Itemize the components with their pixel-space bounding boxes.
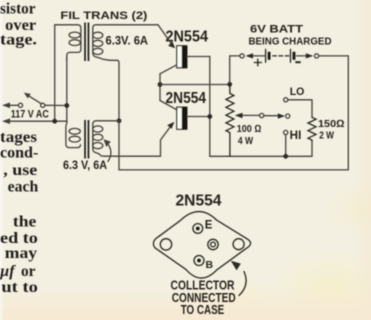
svg-text:6.3V. 6A: 6.3V. 6A (106, 34, 149, 48)
svg-text:2N554: 2N554 (176, 193, 222, 210)
svg-text:µf: µf (0, 263, 16, 280)
svg-text:or: or (21, 263, 36, 280)
resistor 150 ohm 2W zigzag (308, 117, 316, 141)
battery cell 2 (290, 49, 292, 62)
transformer T1 core (84, 23, 86, 62)
svg-text:BEING CHARGED: BEING CHARGED (249, 36, 332, 48)
svg-text:LO: LO (290, 86, 305, 98)
potentiometer 100 ohm 4W zigzag (226, 84, 234, 156)
transistor Q1 body (177, 46, 187, 68)
transistor Q1 emitter wire from T1 secondary (158, 25, 171, 43)
battery cell 1 (265, 49, 267, 62)
battery terminal circle right (315, 54, 319, 58)
svg-text:TO CASE: TO CASE (181, 303, 225, 317)
svg-text:FIL TRANS (2): FIL TRANS (2) (60, 10, 147, 22)
wire base bus vertical (159, 74, 161, 101)
wire T1 secondary bottom down to center node (117, 60, 119, 121)
switch pole circle (286, 114, 290, 118)
junction dot collectors (207, 114, 212, 119)
TO-3 collector pin (208, 239, 218, 249)
junction dot A (52, 119, 57, 124)
svg-text:2 W: 2 W (319, 129, 334, 141)
svg-text:the: the (13, 214, 37, 231)
svg-text:100 Ω: 100 Ω (237, 123, 262, 135)
svg-text:117 V AC: 117 V AC (11, 109, 49, 121)
potentiometer wiper arrow (242, 114, 260, 116)
transistor Q2 base lead (160, 101, 177, 110)
svg-text:sistor: sistor (0, 1, 36, 18)
transformer T1 secondary winding (93, 25, 158, 61)
wire Q2 collector (187, 116, 210, 118)
switch wiper contact circle (260, 113, 264, 117)
svg-text:6V BATT: 6V BATT (250, 24, 303, 36)
TO-3 mounting hole left (160, 239, 171, 250)
wire 117VAC top line with left arrow (5, 104, 18, 106)
svg-text:E: E (205, 219, 213, 231)
wire collector bus bottom (210, 141, 312, 156)
transformer T2 core (84, 120, 86, 159)
junction dot center node (117, 118, 122, 123)
wire main bottom bus (119, 121, 348, 170)
wire LO to 150 ohm (288, 100, 312, 118)
wire battery plus drop (230, 56, 240, 84)
svg-text:150Ω: 150Ω (318, 118, 345, 130)
TO-3 base pin (194, 256, 204, 266)
wire battery right to border (319, 55, 349, 57)
wire HI down to bus (285, 135, 287, 157)
label + (battery plus) (254, 59, 261, 66)
TO-3 emitter pin (193, 224, 203, 234)
battery dashed link (273, 55, 289, 57)
junction dot HI-bus (283, 154, 288, 159)
switch LO contact circle (284, 98, 288, 102)
battery terminal circle left (240, 54, 244, 58)
transistor Q2 body (177, 107, 187, 129)
switch pole arrow (264, 115, 280, 117)
svg-text:tage.: tage. (0, 32, 37, 49)
TO-3 mounting hole right (233, 239, 244, 250)
arrow from 6.3V,6A label to T2 secondary (108, 145, 111, 162)
battery left arrow (249, 55, 265, 57)
switch HI contact circle (284, 130, 288, 134)
svg-text:2N554: 2N554 (166, 90, 207, 107)
transistor Q2 emitter wire from T2 secondary (105, 128, 170, 156)
switch contact circle left (18, 103, 22, 107)
svg-text:HI: HI (290, 130, 302, 142)
battery right arrow (297, 55, 309, 57)
wire Q1 collector (187, 57, 210, 157)
svg-text:cond-: cond- (0, 144, 38, 161)
transistor Q1 base lead (160, 65, 177, 74)
wire vertical B (T1 primary bottom to T2 primary top) (66, 57, 81, 148)
transformer T1 primary winding (55, 25, 81, 60)
svg-text:may: may (5, 245, 38, 262)
svg-text:6.3 V, 6A: 6.3 V, 6A (63, 160, 107, 172)
svg-text:each: each (8, 178, 39, 195)
junction dot B (64, 103, 69, 108)
TO-3 package case outline (153, 212, 250, 278)
svg-text:ut to: ut to (1, 279, 38, 296)
wire 117VAC bottom line with left arrow (5, 120, 68, 122)
switch contact circle right (41, 103, 45, 107)
svg-text:4 W: 4 W (238, 135, 253, 147)
transformer T2 secondary winding (93, 121, 119, 156)
wire base bus horizontal (160, 84, 230, 86)
switch arm with arrowhead (28, 95, 42, 104)
svg-text:B: B (206, 259, 214, 271)
svg-text:, use: , use (3, 162, 37, 179)
wire vertical A (T1 primary top to bottom ac line) (54, 25, 56, 121)
transformer T2 primary winding (69, 128, 80, 134)
wire right border down (347, 56, 349, 170)
junction dot base bus / battery (227, 82, 232, 87)
arrow collector-connected-to-case (239, 272, 246, 296)
junction dot bases (158, 82, 163, 87)
label - (battery minus) (295, 61, 300, 63)
